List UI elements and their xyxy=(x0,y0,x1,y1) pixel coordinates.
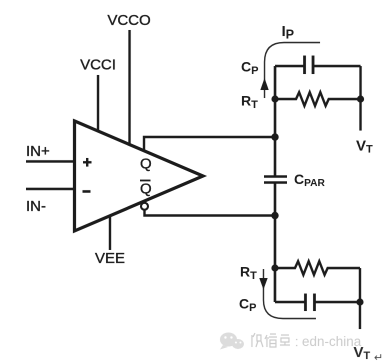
wire Qbar output xyxy=(144,210,275,215)
wire IN- input xyxy=(26,188,76,190)
junction dot Qbar node xyxy=(271,212,278,219)
wire top RC cap branch xyxy=(275,65,361,67)
junction dot RT top left xyxy=(271,95,278,102)
wire IN+ input xyxy=(26,160,76,162)
svg-text:VEE: VEE xyxy=(95,250,125,267)
junction dot RT top right xyxy=(357,95,364,102)
wire VCCO pin xyxy=(128,30,130,144)
capacitor CP bottom plates xyxy=(305,294,314,312)
svg-text:IN-: IN- xyxy=(26,198,46,215)
junction dot Q node xyxy=(271,133,278,140)
resistor RT top xyxy=(275,92,361,106)
pin + symbol xyxy=(83,158,92,167)
junction dot CP bottom right xyxy=(356,298,363,305)
svg-text:Q: Q xyxy=(140,180,152,197)
wire bottom RC right rail xyxy=(359,268,361,329)
arrowhead down xyxy=(259,278,267,290)
wire main rail lower xyxy=(274,183,277,302)
svg-text:↵: ↵ xyxy=(374,352,383,364)
capacitor CPAR plates xyxy=(264,177,287,183)
junction dot RT bottom left xyxy=(271,264,278,271)
svg-text:VCCI: VCCI xyxy=(80,56,116,73)
wire top RC right rail xyxy=(359,66,361,130)
wire Q output xyxy=(144,137,275,151)
inversion bubble Qbar xyxy=(141,203,148,210)
wire VCCI pin xyxy=(97,75,99,132)
wire bottom RC cap branch xyxy=(275,301,360,303)
comparator U1 triangle xyxy=(74,121,203,231)
svg-text:VCCO: VCCO xyxy=(107,12,150,29)
current arrow bottom curve xyxy=(263,269,316,319)
watermark wechat icon xyxy=(220,333,244,350)
pin - symbol xyxy=(82,190,90,193)
resistor RT bottom xyxy=(275,261,360,275)
capacitor CP top plates xyxy=(305,56,314,75)
wire top network left rail xyxy=(274,66,277,176)
svg-text:edn-china: edn-china xyxy=(302,334,362,349)
wire VEE pin xyxy=(109,216,111,250)
svg-text:IN+: IN+ xyxy=(26,143,50,160)
arrowhead IP up xyxy=(260,78,268,90)
current arrow IP curve xyxy=(265,43,321,99)
svg-text:Q: Q xyxy=(140,155,152,172)
watermark text 微信号: (drawn strokes) xyxy=(252,333,297,347)
